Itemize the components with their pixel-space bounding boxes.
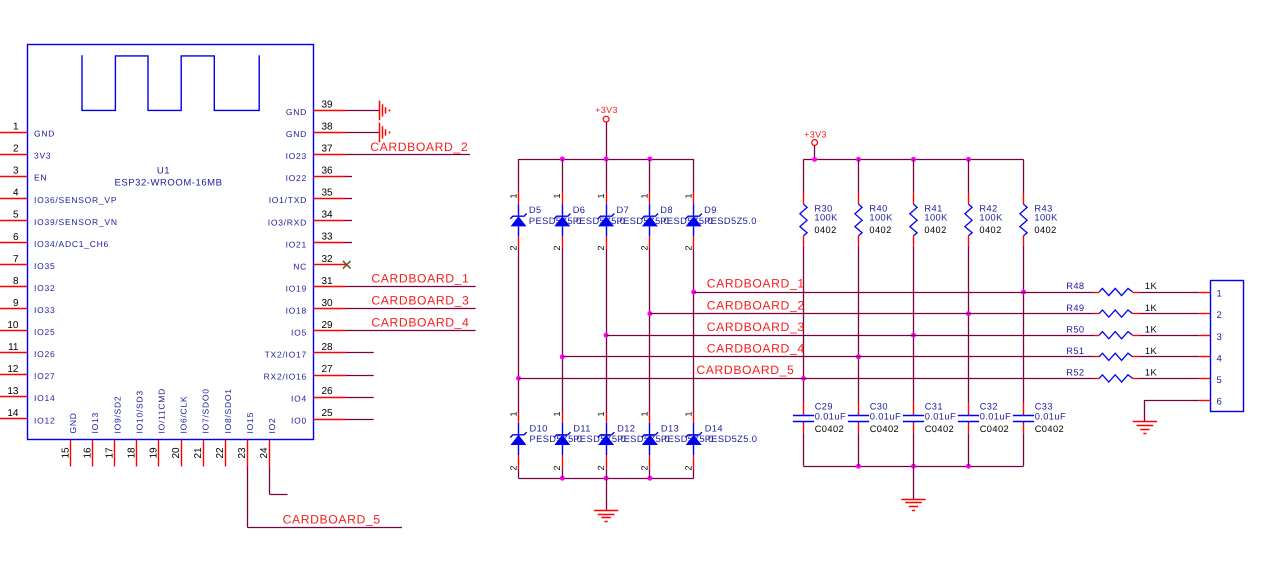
ground at pin 39 <box>380 101 390 121</box>
svg-text:1: 1 <box>508 411 518 416</box>
svg-text:IO3/RXD: IO3/RXD <box>268 217 307 227</box>
bottom rail wire (cap bank) <box>804 466 1024 468</box>
U1 pin 17 IO9/SD2 <box>105 396 123 467</box>
svg-text:1K: 1K <box>1145 303 1158 313</box>
series resistor R52 1K <box>1066 368 1157 382</box>
wire R50 to connector pin 3 <box>1139 335 1210 337</box>
wire R43 down to C33 <box>1023 246 1025 402</box>
svg-text:17: 17 <box>105 447 116 459</box>
U1 pin 27 RX2/IO16 <box>264 364 346 382</box>
wire + net label CARDBOARD_4 at pin 29 <box>346 316 476 331</box>
U1 pin 32 NC <box>293 254 346 272</box>
wire pin38 to ground <box>346 132 379 134</box>
svg-text:IO8/SDO1: IO8/SDO1 <box>223 388 233 433</box>
wire D5 down through signal to D10 <box>518 249 520 413</box>
svg-text:CARDBOARD_4: CARDBOARD_4 <box>707 342 805 356</box>
svg-text:IO15: IO15 <box>245 412 255 433</box>
wire R52 to connector pin 5 <box>1139 378 1210 380</box>
svg-text:IO/11CMD: IO/11CMD <box>157 388 167 434</box>
svg-text:5: 5 <box>1217 375 1222 386</box>
U1 pin 20 IO6/CLK <box>171 396 189 467</box>
svg-text:1K: 1K <box>1145 324 1158 334</box>
svg-text:1: 1 <box>684 411 694 416</box>
capacitor C29 0.01uF C0402 <box>793 402 846 467</box>
svg-text:IO2: IO2 <box>267 418 277 434</box>
svg-text:10: 10 <box>7 320 19 331</box>
svg-text:8: 8 <box>13 276 19 287</box>
wire D8 down through signal to D13 <box>649 249 651 413</box>
junction dot pull-up column 2 on its net line <box>856 354 861 359</box>
svg-text:CARDBOARD_5: CARDBOARD_5 <box>696 363 794 377</box>
svg-text:CARDBOARD_1: CARDBOARD_1 <box>707 277 805 291</box>
ground below diode bank <box>594 478 618 521</box>
top rail wire (diode bank) <box>519 159 694 161</box>
svg-text:2: 2 <box>552 245 562 250</box>
svg-text:CARDBOARD_2: CARDBOARD_2 <box>707 298 805 312</box>
svg-text:20: 20 <box>171 447 182 459</box>
wire stub pin 33 <box>346 242 353 244</box>
svg-text:RX2/IO16: RX2/IO16 <box>264 372 307 382</box>
svg-text:28: 28 <box>322 342 334 353</box>
svg-text:IO6/CLK: IO6/CLK <box>179 396 189 434</box>
svg-text:C31: C31 <box>925 402 943 412</box>
svg-text:6: 6 <box>1217 397 1222 408</box>
U1 pin 13 IO14 <box>0 386 55 403</box>
svg-text:0402: 0402 <box>869 225 891 235</box>
ground at pin 38 <box>380 123 390 143</box>
svg-text:IO25: IO25 <box>34 327 55 337</box>
net label CARDBOARD_4 (middle) <box>707 342 805 356</box>
svg-text:IO26: IO26 <box>34 349 55 359</box>
svg-text:IO39/SENSOR_VN: IO39/SENSOR_VN <box>34 217 118 227</box>
svg-text:+3V3: +3V3 <box>595 105 618 115</box>
svg-text:0402: 0402 <box>1034 225 1056 235</box>
svg-text:9: 9 <box>13 298 19 309</box>
U1 pin 16 IO13 <box>82 412 100 466</box>
svg-text:35: 35 <box>322 188 334 199</box>
svg-text:R48: R48 <box>1066 281 1084 291</box>
junction dot pull-up column 3 on its net line <box>911 333 916 338</box>
svg-text:IO23: IO23 <box>286 151 307 161</box>
series resistor R49 1K <box>1066 303 1157 317</box>
U1 pin 22 IO8/SDO1 <box>215 388 233 466</box>
svg-text:1K: 1K <box>1145 281 1158 291</box>
net label CARDBOARD_2 (middle) <box>707 298 805 312</box>
svg-text:3V3: 3V3 <box>34 151 51 161</box>
svg-text:R52: R52 <box>1066 368 1084 378</box>
svg-text:4: 4 <box>1217 353 1222 364</box>
svg-text:32: 32 <box>322 254 334 265</box>
svg-text:100K: 100K <box>814 213 838 223</box>
U1 pin 5 IO39/SENSOR_VN <box>0 210 118 227</box>
svg-text:100K: 100K <box>979 213 1003 223</box>
svg-text:IO12: IO12 <box>34 415 55 425</box>
resistor R40 100K 0402 <box>855 159 893 245</box>
svg-text:5: 5 <box>13 210 19 221</box>
svg-text:24: 24 <box>259 447 270 459</box>
U1 pin 33 IO21 <box>286 232 346 250</box>
svg-text:2: 2 <box>13 144 19 155</box>
svg-text:IO13: IO13 <box>90 412 100 433</box>
svg-text:1: 1 <box>684 193 694 198</box>
svg-text:ESP32-WROOM-16MB: ESP32-WROOM-16MB <box>114 178 222 189</box>
net label CARDBOARD_5 (middle) <box>696 363 794 377</box>
svg-text:D5: D5 <box>529 205 542 215</box>
svg-text:IO27: IO27 <box>34 371 55 381</box>
svg-text:1K: 1K <box>1145 346 1158 356</box>
svg-text:IO4: IO4 <box>291 394 307 404</box>
svg-text:NC: NC <box>293 261 307 271</box>
connector pin 6 stub <box>1199 400 1210 402</box>
svg-text:GND: GND <box>68 412 78 433</box>
wire connector pin 6 to ground <box>1145 400 1200 422</box>
TVS diode D7 PESD5Z5.0 (top row) <box>596 159 669 251</box>
svg-text:21: 21 <box>193 447 204 459</box>
svg-text:27: 27 <box>322 364 334 375</box>
svg-text:R51: R51 <box>1066 346 1084 356</box>
svg-text:EN: EN <box>34 173 47 183</box>
+3V3 power symbol (pull-up bank) <box>804 129 827 159</box>
U1 pin 18 IO10/SD3 <box>127 390 145 466</box>
net wire CARDBOARD_1 <box>694 292 1095 294</box>
svg-text:29: 29 <box>322 320 334 331</box>
svg-text:IO36/SENSOR_VP: IO36/SENSOR_VP <box>34 195 117 205</box>
U1 pin 7 IO35 <box>0 254 55 271</box>
U1 pin 4 IO36/SENSOR_VP <box>0 188 117 205</box>
svg-text:100K: 100K <box>869 213 893 223</box>
U1 pin 2 3V3 <box>0 144 51 161</box>
svg-text:IO19: IO19 <box>286 283 307 293</box>
TVS diode D6 PESD5Z5.0 (top row) <box>552 159 625 251</box>
wire D7 down through signal to D12 <box>606 249 608 413</box>
net wire CARDBOARD_2 <box>650 313 1095 315</box>
junction dot diode column 4 on its net line <box>647 311 652 316</box>
IC U1 ESP32-WROOM-16MB body <box>28 45 314 440</box>
svg-text:PESD5Z5.0: PESD5Z5.0 <box>704 216 757 226</box>
svg-text:0402: 0402 <box>814 225 836 235</box>
wire R42 down to C32 <box>968 246 970 402</box>
svg-text:37: 37 <box>322 144 334 155</box>
resistor R42 100K 0402 <box>965 159 1003 245</box>
svg-text:1K: 1K <box>1145 368 1158 378</box>
svg-text:IO0: IO0 <box>291 416 307 426</box>
wire pin24 stub <box>269 467 287 495</box>
svg-text:D11: D11 <box>573 424 591 434</box>
svg-text:IO21: IO21 <box>286 239 307 249</box>
wire stub pin 36 <box>346 176 353 178</box>
svg-text:3: 3 <box>13 166 19 177</box>
svg-text:16: 16 <box>82 447 93 459</box>
wire stub pin 26 <box>346 397 374 399</box>
resistor R30 100K 0402 <box>800 159 838 245</box>
svg-text:CARDBOARD_5: CARDBOARD_5 <box>283 513 381 527</box>
U1 pin 8 IO32 <box>0 276 55 293</box>
svg-text:D8: D8 <box>660 205 673 215</box>
svg-text:GND: GND <box>34 129 55 139</box>
svg-text:GND: GND <box>286 107 307 117</box>
svg-text:R49: R49 <box>1066 303 1084 313</box>
svg-text:CARDBOARD_3: CARDBOARD_3 <box>707 320 805 334</box>
svg-text:C0402: C0402 <box>815 424 844 434</box>
svg-text:+3V3: +3V3 <box>804 129 827 139</box>
svg-text:2: 2 <box>596 465 606 470</box>
TVS diode D8 PESD5Z5.0 (top row) <box>640 159 713 251</box>
U1 pin 38 GND <box>286 121 346 139</box>
svg-text:D12: D12 <box>617 424 635 434</box>
svg-text:2: 2 <box>1217 310 1222 321</box>
U1 pin 14 IO12 <box>0 408 55 425</box>
U1 pin 31 IO19 <box>286 276 346 294</box>
svg-text:19: 19 <box>149 447 160 459</box>
U1 pin 25 IO0 <box>291 408 346 426</box>
U1 pin 10 IO25 <box>0 320 55 337</box>
svg-text:100K: 100K <box>924 213 948 223</box>
svg-text:TX2/IO17: TX2/IO17 <box>265 350 307 360</box>
svg-text:D13: D13 <box>661 424 679 434</box>
svg-text:4: 4 <box>13 188 19 199</box>
TVS diode D11 PESD5Z5.0 (bottom row) <box>552 411 626 478</box>
svg-text:2: 2 <box>596 245 606 250</box>
wire D9 down through signal to D14 <box>693 249 695 413</box>
capacitor C31 0.01uF C0402 <box>903 402 956 467</box>
U1 pin 26 IO4 <box>291 386 346 404</box>
capacitor C33 0.01uF C0402 <box>1013 402 1066 467</box>
svg-text:1: 1 <box>596 193 606 198</box>
antenna meander inside U1 <box>82 55 259 110</box>
capacitor C32 0.01uF C0402 <box>958 402 1011 467</box>
bottom rail wire (diode bank) <box>519 478 694 480</box>
svg-text:1: 1 <box>13 122 19 133</box>
U1 pin 23 IO15 <box>237 412 255 466</box>
series resistor R51 1K <box>1066 346 1157 360</box>
wire stub pin 27 <box>346 375 374 377</box>
svg-text:IO34/ADC1_CH6: IO34/ADC1_CH6 <box>34 239 109 249</box>
svg-text:1: 1 <box>552 193 562 198</box>
junction dot diode column 1 on its net line <box>516 376 521 381</box>
ground at connector pin 6 <box>1133 422 1157 434</box>
svg-text:U1: U1 <box>157 166 170 177</box>
svg-text:0.01uF: 0.01uF <box>925 412 956 422</box>
U1 pin 35 IO1/TXD <box>269 188 346 206</box>
wire R30 down to C29 <box>803 246 805 402</box>
svg-text:0402: 0402 <box>924 225 946 235</box>
svg-text:14: 14 <box>7 408 19 419</box>
U1 pin 9 IO33 <box>0 298 55 315</box>
svg-text:IO22: IO22 <box>286 173 307 183</box>
svg-text:6: 6 <box>13 232 19 243</box>
wire R51 to connector pin 4 <box>1139 356 1210 358</box>
svg-text:CARDBOARD_3: CARDBOARD_3 <box>371 294 469 308</box>
svg-text:C0402: C0402 <box>925 424 954 434</box>
wire pin23 to CARDBOARD_5 <box>247 467 402 528</box>
U1 pin 34 IO3/RXD <box>268 210 346 228</box>
svg-text:26: 26 <box>322 386 334 397</box>
U1 pin 24 IO2 <box>259 418 277 467</box>
svg-text:IO10/SD3: IO10/SD3 <box>134 390 144 433</box>
svg-text:2: 2 <box>552 465 562 470</box>
connector J1 6-pin header <box>1211 281 1244 412</box>
junction dot diode column 5 on its net line <box>691 290 696 295</box>
svg-text:IO18: IO18 <box>286 305 307 315</box>
svg-text:1: 1 <box>596 411 606 416</box>
net label CARDBOARD_1 (middle) <box>707 277 805 291</box>
wire stub pin 34 <box>346 220 353 222</box>
svg-text:1: 1 <box>640 411 650 416</box>
svg-text:2: 2 <box>508 245 518 250</box>
svg-text:2: 2 <box>508 465 518 470</box>
svg-text:0.01uF: 0.01uF <box>1035 412 1066 422</box>
capacitor C30 0.01uF C0402 <box>848 402 901 467</box>
U1 pin 3 EN <box>0 166 47 183</box>
net label CARDBOARD_5 (chip side) <box>283 513 381 527</box>
svg-text:13: 13 <box>7 386 19 397</box>
svg-text:CARDBOARD_2: CARDBOARD_2 <box>370 140 468 154</box>
svg-text:IO14: IO14 <box>34 393 55 403</box>
svg-text:IO1/TXD: IO1/TXD <box>269 195 307 205</box>
svg-text:IO35: IO35 <box>34 261 55 271</box>
U1 pin 6 IO34/ADC1_CH6 <box>0 232 109 249</box>
svg-text:39: 39 <box>322 99 334 110</box>
+3V3 power symbol (diode bank) <box>595 105 618 159</box>
series resistor R50 1K <box>1066 324 1157 338</box>
TVS diode D12 PESD5Z5.0 (bottom row) <box>596 411 670 478</box>
TVS diode D5 PESD5Z5.0 (top row) <box>508 159 581 251</box>
wire + net label CARDBOARD_1 at pin 31 <box>346 272 476 287</box>
junction dot pull-up column 5 on its net line <box>1021 290 1026 295</box>
svg-text:PESD5Z5.0: PESD5Z5.0 <box>705 434 758 444</box>
svg-text:C33: C33 <box>1035 402 1053 412</box>
junction dots on diode top rail <box>560 157 653 162</box>
svg-text:D10: D10 <box>530 424 548 434</box>
svg-text:D6: D6 <box>573 205 586 215</box>
svg-text:0.01uF: 0.01uF <box>980 412 1011 422</box>
resistor R41 100K 0402 <box>910 159 948 245</box>
svg-text:31: 31 <box>322 276 334 287</box>
junction dots on cap bottom rail <box>856 464 971 469</box>
wire R41 down to C31 <box>913 246 915 402</box>
no-connect X at pin 32 <box>343 261 351 269</box>
svg-text:CARDBOARD_1: CARDBOARD_1 <box>371 272 469 286</box>
svg-text:22: 22 <box>215 447 226 459</box>
junction dot pull-up column 4 on its net line <box>966 311 971 316</box>
wire + net label CARDBOARD_3 at pin 30 <box>346 294 476 309</box>
svg-text:C30: C30 <box>870 402 888 412</box>
svg-text:18: 18 <box>127 447 138 459</box>
svg-text:1: 1 <box>1217 289 1222 300</box>
svg-text:11: 11 <box>8 342 19 353</box>
svg-text:7: 7 <box>13 254 19 265</box>
U1 pin 36 IO22 <box>286 166 346 184</box>
wire + net label CARDBOARD_2 at pin 37 <box>346 140 470 155</box>
svg-text:IO33: IO33 <box>34 305 55 315</box>
U1 pin 19 IO/11CMD <box>149 388 167 467</box>
wire stub pin 35 <box>346 198 353 200</box>
U1 pin 21 IO7/SDO0 <box>193 388 211 466</box>
U1 pin 29 IO5 <box>291 320 346 338</box>
svg-text:2: 2 <box>640 465 650 470</box>
svg-text:15: 15 <box>60 447 71 459</box>
svg-text:2: 2 <box>640 245 650 250</box>
svg-text:25: 25 <box>322 408 334 419</box>
junction dot diode column 3 on its net line <box>604 333 609 338</box>
svg-text:IO9/SD2: IO9/SD2 <box>112 396 122 434</box>
svg-text:2: 2 <box>684 245 694 250</box>
svg-text:IO7/SDO0: IO7/SDO0 <box>201 388 211 433</box>
svg-text:12: 12 <box>7 364 19 375</box>
series resistor R48 1K <box>1066 281 1157 295</box>
svg-text:1: 1 <box>640 193 650 198</box>
wire stub pin 28 <box>346 352 374 354</box>
resistor R43 100K 0402 <box>1020 159 1058 245</box>
svg-text:IO5: IO5 <box>291 328 307 338</box>
svg-text:34: 34 <box>322 210 334 221</box>
U1 pin 39 GND <box>286 99 346 117</box>
svg-text:R50: R50 <box>1066 324 1084 334</box>
svg-text:C32: C32 <box>980 402 998 412</box>
svg-text:30: 30 <box>322 298 334 309</box>
U1 pin 12 IO27 <box>0 364 55 381</box>
svg-text:33: 33 <box>322 232 334 243</box>
svg-text:C29: C29 <box>815 402 833 412</box>
svg-text:GND: GND <box>286 129 307 139</box>
svg-text:0.01uF: 0.01uF <box>870 412 901 422</box>
U1 pin 30 IO18 <box>286 298 346 316</box>
net wire CARDBOARD_4 <box>562 356 1094 358</box>
TVS diode D14 PESD5Z5.0 (bottom row) <box>684 411 758 478</box>
svg-text:1: 1 <box>552 411 562 416</box>
TVS diode D9 PESD5Z5.0 (top row) <box>684 159 757 251</box>
svg-text:D9: D9 <box>704 205 717 215</box>
svg-text:C0402: C0402 <box>980 424 1009 434</box>
junction dots on diode bottom rail <box>560 476 653 481</box>
net wire CARDBOARD_5 <box>519 378 1095 380</box>
junction dot diode column 2 on its net line <box>560 354 565 359</box>
wire D6 down through signal to D11 <box>562 249 564 413</box>
ground below cap bank <box>901 466 925 510</box>
wire R40 down to C30 <box>858 246 860 402</box>
TVS diode D13 PESD5Z5.0 (bottom row) <box>640 411 714 478</box>
svg-text:1: 1 <box>508 193 518 198</box>
junction dots on pull-up top rail <box>812 157 971 162</box>
svg-text:36: 36 <box>322 166 334 177</box>
net wire CARDBOARD_3 <box>606 335 1095 337</box>
svg-text:100K: 100K <box>1034 213 1058 223</box>
wire R49 to connector pin 2 <box>1139 313 1210 315</box>
svg-text:3: 3 <box>1217 332 1222 343</box>
U1 pin 28 TX2/IO17 <box>265 342 346 360</box>
top rail wire (pull-up bank) <box>804 159 1024 161</box>
svg-text:C0402: C0402 <box>870 424 899 434</box>
wire stub pin 25 <box>346 419 374 421</box>
svg-text:CARDBOARD_4: CARDBOARD_4 <box>371 316 469 330</box>
wire pin39 to ground <box>346 110 379 112</box>
svg-text:IO32: IO32 <box>34 283 55 293</box>
svg-text:2: 2 <box>684 465 694 470</box>
TVS diode D10 PESD5Z5.0 (bottom row) <box>508 411 582 478</box>
svg-text:38: 38 <box>322 121 334 132</box>
svg-text:0402: 0402 <box>979 225 1001 235</box>
wire R48 to connector pin 1 <box>1139 292 1210 294</box>
junction dot pull-up column 1 on its net line <box>801 376 806 381</box>
U1 pin 1 GND <box>0 122 55 139</box>
svg-text:D7: D7 <box>617 205 630 215</box>
net label CARDBOARD_3 (middle) <box>707 320 805 334</box>
U1 pin 37 IO23 <box>286 144 346 162</box>
U1 pin 15 GND <box>60 412 78 466</box>
svg-text:0.01uF: 0.01uF <box>815 412 846 422</box>
svg-text:23: 23 <box>237 447 248 459</box>
U1 pin 11 IO26 <box>0 342 55 359</box>
